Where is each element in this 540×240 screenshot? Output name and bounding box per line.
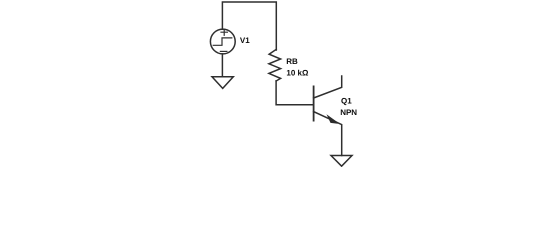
svg-text:NPN: NPN (340, 108, 357, 117)
svg-text:Q1: Q1 (341, 97, 352, 106)
svg-text:10 kΩ: 10 kΩ (286, 68, 309, 77)
svg-text:V1: V1 (240, 36, 250, 45)
svg-text:RB: RB (286, 57, 298, 66)
